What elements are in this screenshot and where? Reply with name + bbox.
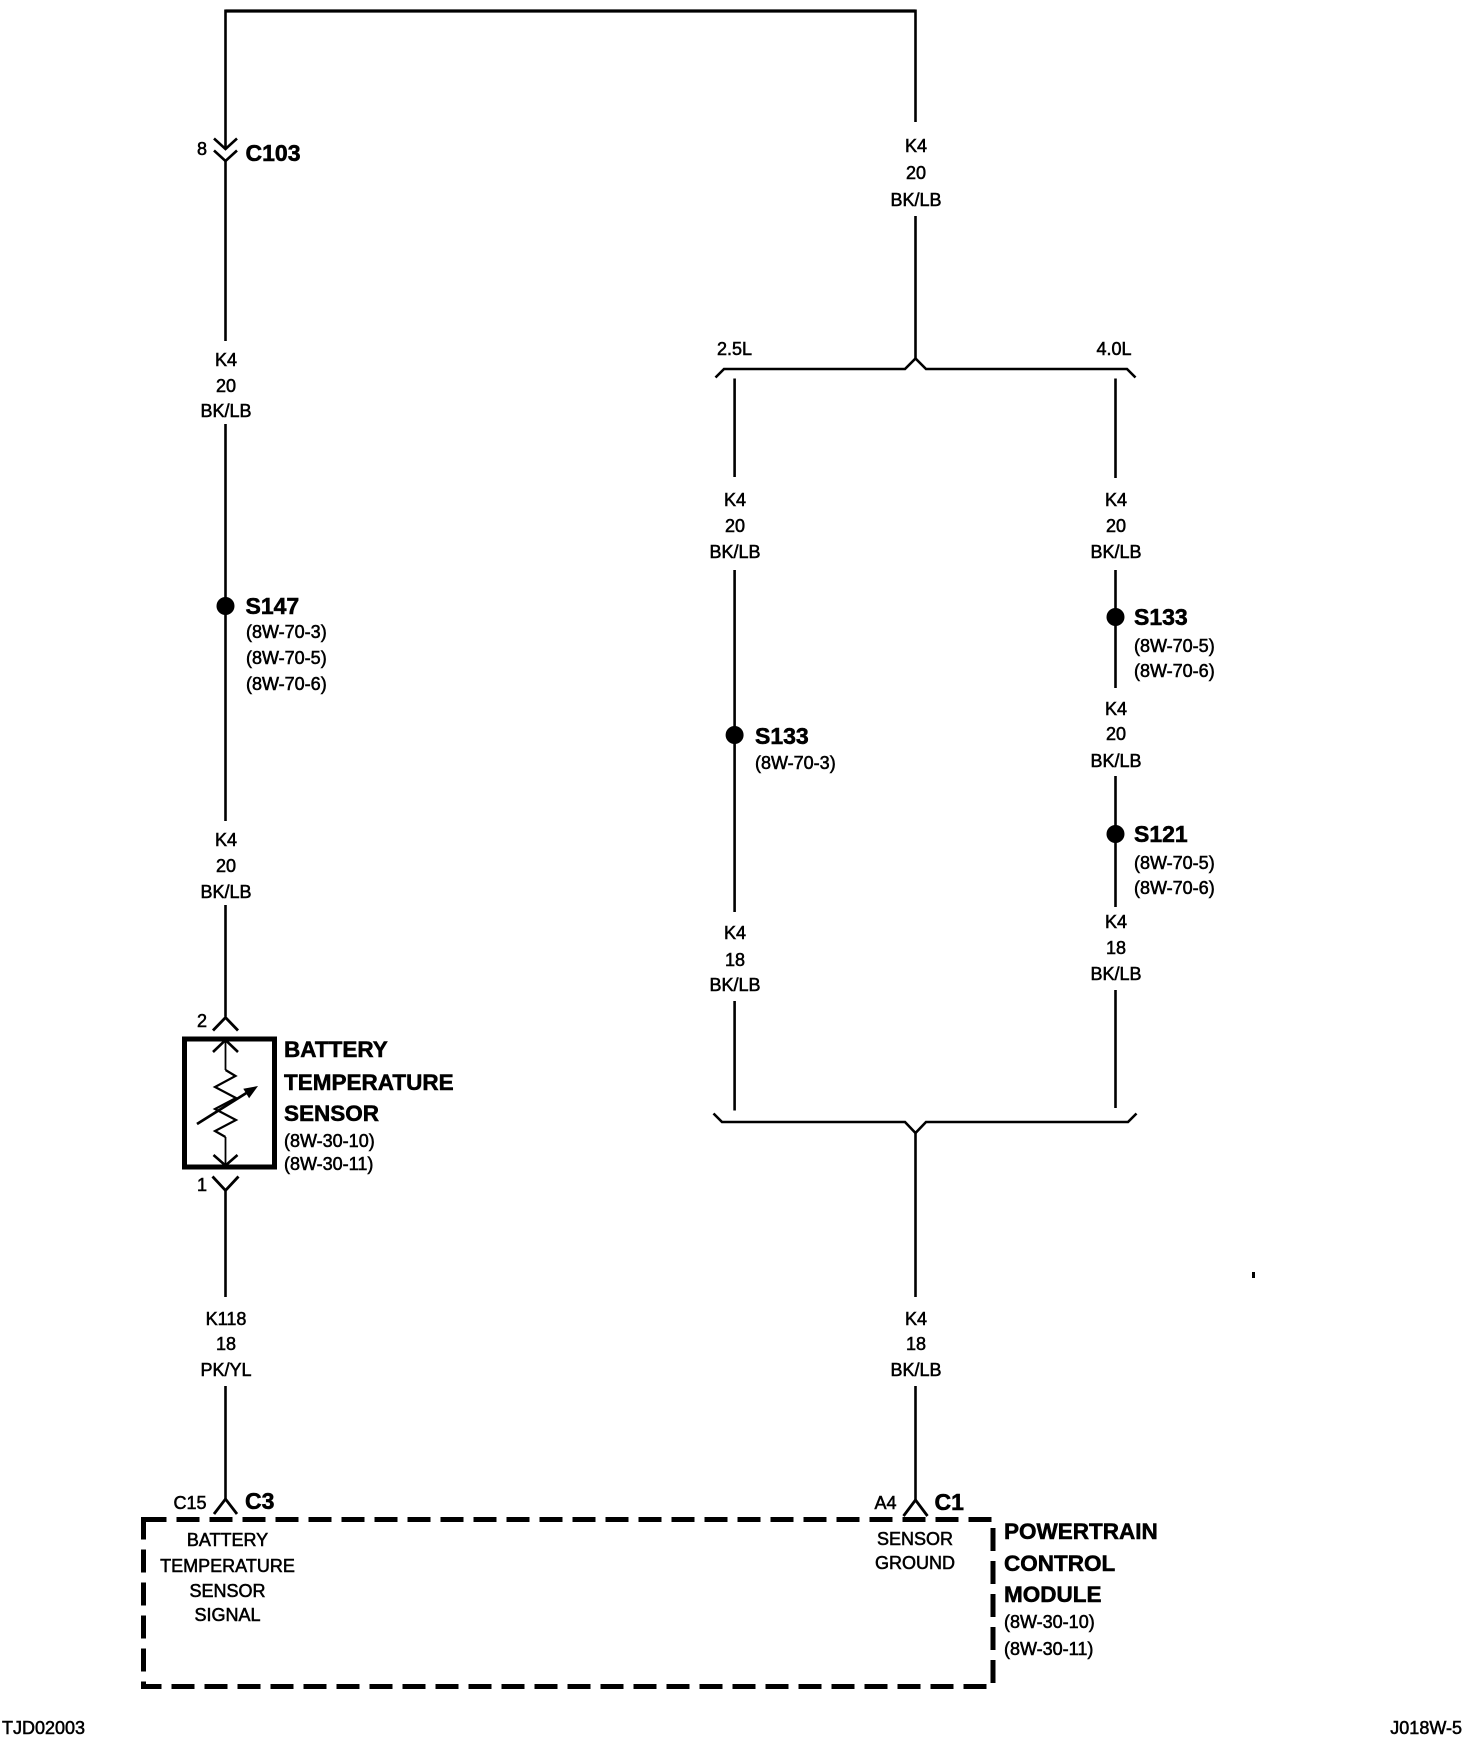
svg-text:S121: S121 xyxy=(1134,821,1188,847)
svg-text:1: 1 xyxy=(197,1175,207,1195)
sensor inner lead bottom xyxy=(225,1137,227,1165)
svg-text:2.5L: 2.5L xyxy=(717,339,752,359)
wire center label to connector C1 xyxy=(914,1386,917,1500)
svg-text:SENSOR: SENSOR xyxy=(284,1101,379,1126)
wire right drop from bus xyxy=(914,10,917,123)
svg-text:BK/LB: BK/LB xyxy=(200,401,251,421)
svg-text:MODULE: MODULE xyxy=(1004,1582,1102,1607)
sensor inner lead top xyxy=(225,1040,227,1070)
wire below sensor to K118 label xyxy=(224,1191,227,1298)
wire merge bracket to K4 label xyxy=(914,1133,917,1297)
svg-text:BATTERY: BATTERY xyxy=(187,1530,268,1550)
svg-text:A4: A4 xyxy=(874,1493,896,1513)
connector C3 Y symbol xyxy=(214,1499,237,1514)
svg-text:BK/LB: BK/LB xyxy=(709,542,760,562)
splice bracket bottom (engine option merge) xyxy=(714,1114,1137,1134)
wire 2.5L lower label to merge bracket xyxy=(733,1001,736,1111)
svg-text:S147: S147 xyxy=(246,593,300,619)
ink speck artifact xyxy=(1252,1272,1255,1278)
battery temperature sensor box xyxy=(185,1039,275,1167)
svg-text:K4: K4 xyxy=(1105,699,1127,719)
splice S133 dot (2.5L) xyxy=(726,726,744,744)
svg-text:(8W-30-10): (8W-30-10) xyxy=(1004,1612,1095,1632)
wire second label to sensor pin 2 xyxy=(224,905,227,1017)
svg-text:GROUND: GROUND xyxy=(875,1553,955,1573)
svg-text:K4: K4 xyxy=(215,830,237,850)
svg-text:K4: K4 xyxy=(215,350,237,370)
svg-text:8: 8 xyxy=(197,139,207,159)
svg-text:K4: K4 xyxy=(905,136,927,156)
splice S121 dot xyxy=(1107,825,1125,843)
svg-text:20: 20 xyxy=(906,163,926,183)
wire 4.0L S133 down xyxy=(1114,617,1117,688)
svg-text:20: 20 xyxy=(216,376,236,396)
sensor inner top pin chevron xyxy=(213,1040,238,1052)
svg-text:18: 18 xyxy=(906,1334,926,1354)
sensor inner bottom chevron xyxy=(214,1155,238,1166)
svg-text:BK/LB: BK/LB xyxy=(890,1360,941,1380)
svg-text:SENSOR: SENSOR xyxy=(877,1529,953,1549)
svg-text:S133: S133 xyxy=(1134,604,1188,630)
svg-text:(8W-70-3): (8W-70-3) xyxy=(755,753,836,773)
svg-text:BK/LB: BK/LB xyxy=(200,882,251,902)
svg-text:18: 18 xyxy=(1106,938,1126,958)
svg-text:K4: K4 xyxy=(1105,490,1127,510)
svg-text:20: 20 xyxy=(1106,724,1126,744)
svg-text:(8W-70-5): (8W-70-5) xyxy=(1134,853,1215,873)
svg-text:J018W-5: J018W-5 xyxy=(1390,1718,1462,1738)
wire 4.0L S121 down xyxy=(1114,834,1117,907)
svg-text:18: 18 xyxy=(216,1334,236,1354)
svg-text:(8W-70-5): (8W-70-5) xyxy=(246,648,327,668)
wire right label to split bracket xyxy=(914,216,917,359)
svg-text:4.0L: 4.0L xyxy=(1097,339,1132,359)
wire 2.5L S133 down xyxy=(733,735,736,912)
svg-text:BATTERY: BATTERY xyxy=(284,1037,388,1062)
svg-text:CONTROL: CONTROL xyxy=(1004,1551,1115,1576)
svg-text:BK/LB: BK/LB xyxy=(1090,751,1141,771)
connector C1 Y symbol xyxy=(904,1500,928,1516)
svg-text:BK/LB: BK/LB xyxy=(1090,964,1141,984)
svg-text:TEMPERATURE: TEMPERATURE xyxy=(160,1556,295,1576)
svg-text:S133: S133 xyxy=(755,723,809,749)
svg-text:K4: K4 xyxy=(724,923,746,943)
svg-text:(8W-30-10): (8W-30-10) xyxy=(284,1131,375,1151)
svg-text:K118: K118 xyxy=(206,1309,247,1329)
sensor pin 2 chevron xyxy=(213,1018,238,1031)
svg-text:18: 18 xyxy=(725,950,745,970)
svg-text:BK/LB: BK/LB xyxy=(709,975,760,995)
wire S147 to second label xyxy=(224,606,227,821)
svg-text:SIGNAL: SIGNAL xyxy=(194,1605,260,1625)
svg-text:K4: K4 xyxy=(1105,912,1127,932)
svg-text:BK/LB: BK/LB xyxy=(1090,542,1141,562)
wire left label to splice S147 xyxy=(224,424,227,606)
svg-text:20: 20 xyxy=(1106,516,1126,536)
svg-text:(8W-30-11): (8W-30-11) xyxy=(1004,1639,1093,1659)
svg-text:C1: C1 xyxy=(935,1489,965,1515)
wire 4.0L branch upper xyxy=(1114,379,1117,479)
svg-text:20: 20 xyxy=(216,856,236,876)
wire 4.0L mid label to splice S121 xyxy=(1114,776,1117,834)
svg-text:C103: C103 xyxy=(246,140,301,166)
wire 2.5L label to splice S133 xyxy=(733,570,736,735)
svg-text:2: 2 xyxy=(197,1011,207,1031)
svg-text:BK/LB: BK/LB xyxy=(890,190,941,210)
svg-text:SENSOR: SENSOR xyxy=(189,1581,265,1601)
wire top bus horizontal xyxy=(226,9,916,12)
svg-text:POWERTRAIN: POWERTRAIN xyxy=(1004,1519,1158,1544)
svg-text:(8W-30-11): (8W-30-11) xyxy=(284,1154,373,1174)
splice bracket top (engine option split) xyxy=(716,359,1136,378)
svg-text:C3: C3 xyxy=(245,1488,274,1514)
svg-text:K4: K4 xyxy=(724,490,746,510)
wire 2.5L branch upper xyxy=(733,379,736,478)
svg-text:C15: C15 xyxy=(173,1493,206,1513)
svg-text:TEMPERATURE: TEMPERATURE xyxy=(284,1070,454,1095)
thermistor zigzag xyxy=(215,1070,236,1137)
wire 4.0L label to splice S133 xyxy=(1114,570,1117,617)
wire left C103 to label K4 xyxy=(224,161,227,341)
splice S147 dot xyxy=(217,597,235,615)
splice S133 dot (4.0L) xyxy=(1107,608,1125,626)
svg-text:(8W-70-6): (8W-70-6) xyxy=(246,674,327,694)
svg-text:(8W-70-3): (8W-70-3) xyxy=(246,622,327,642)
thermistor variable arrow xyxy=(197,1092,248,1124)
svg-text:K4: K4 xyxy=(905,1309,927,1329)
wire K118 label to connector C3 xyxy=(224,1386,227,1499)
powertrain control module dashed box xyxy=(144,1520,994,1687)
svg-text:(8W-70-6): (8W-70-6) xyxy=(1134,878,1215,898)
svg-text:TJD02003: TJD02003 xyxy=(2,1718,85,1738)
wire left drop to C103 xyxy=(224,10,227,148)
wire 4.0L lower label to merge bracket xyxy=(1114,990,1117,1108)
svg-text:(8W-70-5): (8W-70-5) xyxy=(1134,636,1215,656)
sensor pin 1 chevron xyxy=(213,1177,239,1191)
connector C103 symbol (double chevron) xyxy=(214,139,237,162)
svg-text:PK/YL: PK/YL xyxy=(200,1360,251,1380)
svg-text:(8W-70-6): (8W-70-6) xyxy=(1134,661,1215,681)
svg-text:20: 20 xyxy=(725,516,745,536)
